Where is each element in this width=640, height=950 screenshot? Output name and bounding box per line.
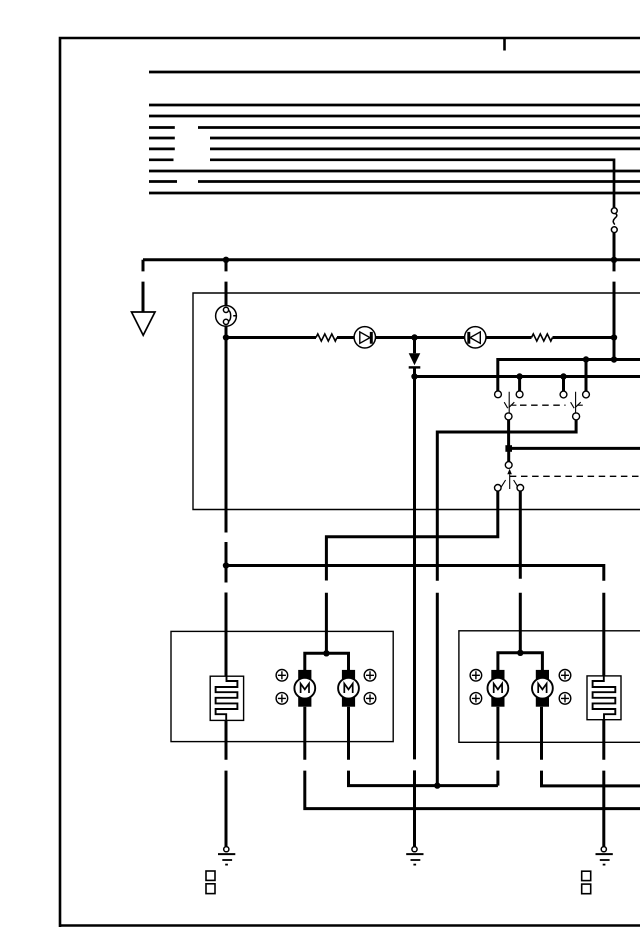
diode D2 (circled) bbox=[465, 327, 486, 348]
motor M4 bbox=[532, 670, 553, 707]
wire: motor M3 return bbox=[496, 707, 499, 786]
circuit breaker element (left, serpentine) bbox=[210, 676, 243, 720]
wire: bus line 9 bbox=[149, 180, 640, 183]
motor M1 bbox=[294, 670, 315, 707]
resistor R2 bbox=[532, 334, 553, 341]
wire bbox=[486, 336, 532, 339]
junction bbox=[560, 373, 566, 379]
wire: diode branch to ground bbox=[413, 377, 416, 847]
box: right window motor assembly bbox=[459, 631, 640, 743]
switch SW1 contact a bbox=[495, 391, 502, 398]
wire: bus line 6 bbox=[149, 148, 640, 151]
switch SW2 common bbox=[505, 462, 512, 469]
wire: left breaker to ground bbox=[225, 720, 228, 846]
wire: contact stub bbox=[518, 377, 521, 391]
label box bbox=[206, 884, 215, 894]
node: connector tick bbox=[503, 38, 506, 51]
wire: motor M1 return bbox=[305, 707, 640, 809]
terminal + bbox=[276, 693, 288, 705]
wire: breaker drop bbox=[225, 338, 228, 677]
ground G3 bbox=[596, 847, 613, 865]
wire: bus line 8 bbox=[149, 170, 640, 173]
junction bbox=[516, 373, 522, 379]
wire: motor M2 return bbox=[349, 707, 498, 786]
wire: ground drop bbox=[142, 260, 145, 312]
wire: battery feed bus bbox=[149, 71, 640, 74]
wire: switch linkage (dashed) bbox=[520, 404, 566, 406]
junction bbox=[583, 356, 589, 362]
wire: bus line 5 bbox=[149, 137, 640, 140]
terminal + bbox=[559, 670, 571, 682]
junction bbox=[323, 650, 329, 656]
box: power window master switch unit bbox=[193, 293, 640, 510]
junction bbox=[517, 650, 523, 656]
switch SW1 blade right bbox=[571, 392, 583, 413]
junction bbox=[223, 562, 229, 568]
terminal + bbox=[470, 670, 482, 682]
resistor R1 bbox=[316, 334, 337, 341]
wire bbox=[337, 336, 354, 339]
wire: power rail y260 bbox=[143, 258, 640, 261]
diode D3 bbox=[409, 338, 421, 377]
junction bbox=[223, 257, 229, 263]
label box bbox=[206, 871, 215, 880]
wire: breaker to resistor row bbox=[225, 326, 228, 337]
junction bbox=[411, 373, 417, 379]
wire: motor M4 return bbox=[542, 707, 640, 786]
motor M2 bbox=[338, 670, 359, 707]
circuit breaker element (right, serpentine) bbox=[587, 676, 621, 720]
switch SW1 contact b bbox=[516, 391, 523, 398]
wire bbox=[437, 420, 576, 786]
junction bbox=[411, 334, 417, 340]
wire: bus line 4 bbox=[149, 126, 640, 129]
wire: motor feed bracket bbox=[498, 653, 543, 671]
terminal + bbox=[559, 693, 571, 705]
wire: rail y448 bbox=[509, 447, 640, 450]
wire: rail y565 bbox=[226, 566, 604, 676]
wire: rail to breaker bbox=[225, 260, 228, 306]
wire: bus line 10 bbox=[149, 192, 640, 195]
junction bbox=[611, 356, 617, 362]
terminal + bbox=[364, 693, 376, 705]
switch SW1 contact d bbox=[583, 391, 590, 398]
wire: rail y376 bbox=[415, 375, 640, 378]
switch SW2 contact b bbox=[517, 485, 524, 492]
wire: motor feed bracket bbox=[305, 653, 349, 670]
switch SW1 blade left bbox=[504, 392, 516, 413]
junction bbox=[505, 445, 512, 452]
wire: rail y359 bbox=[498, 360, 640, 391]
wire bbox=[326, 491, 497, 653]
wire: contact stub bbox=[562, 377, 565, 392]
motor M3 bbox=[488, 670, 509, 707]
wire: contact stub bbox=[585, 360, 588, 392]
junction bbox=[611, 257, 617, 263]
wire: switch linkage (dashed) bbox=[510, 475, 640, 477]
switch SW1 contact c bbox=[560, 391, 567, 398]
wire: bus line 2 bbox=[149, 104, 640, 107]
ground G1 bbox=[218, 847, 235, 865]
wire bbox=[507, 448, 510, 461]
wire bbox=[553, 336, 615, 339]
wire bbox=[376, 336, 465, 339]
label box bbox=[582, 871, 591, 880]
wire: right breaker to ground bbox=[602, 720, 605, 847]
circuit breaker CB1 bbox=[216, 306, 237, 327]
junction bbox=[434, 782, 440, 788]
terminal + bbox=[276, 670, 288, 682]
switch SW1 common left bbox=[505, 413, 512, 420]
terminal + bbox=[470, 693, 482, 705]
wire bbox=[519, 491, 522, 653]
wire bbox=[507, 420, 510, 449]
inline connector C1 bbox=[611, 208, 617, 233]
switch SW2 blade bbox=[501, 469, 518, 489]
label box bbox=[582, 884, 591, 894]
terminal + bbox=[364, 670, 376, 682]
wire: connector to power rail bbox=[613, 233, 616, 360]
wire: bus line 7 to connector bbox=[149, 160, 614, 208]
switch SW2 contact a bbox=[495, 485, 502, 492]
switch SW1 common right bbox=[573, 413, 580, 420]
ground: chassis ground triangle bbox=[132, 312, 156, 335]
junction bbox=[223, 334, 229, 340]
junction bbox=[611, 334, 617, 340]
box: left window motor assembly bbox=[171, 631, 393, 741]
diode D1 (circled) bbox=[354, 327, 375, 348]
wire bbox=[226, 336, 316, 339]
ground G2 bbox=[406, 847, 423, 865]
wire: bus line 3 bbox=[149, 115, 640, 118]
